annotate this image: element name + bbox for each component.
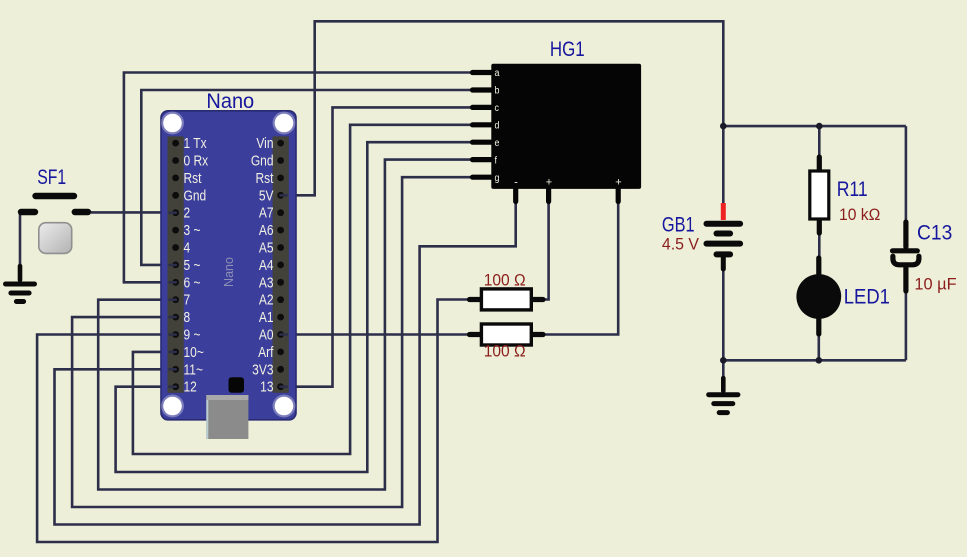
nano right pin dots: [277, 140, 284, 390]
svg-text:-: -: [514, 177, 518, 189]
svg-text:13: 13: [260, 378, 273, 395]
junction node battery top: [720, 123, 727, 130]
wire R11 to LED1: [818, 232, 821, 258]
resistor R3 100ohm bottom: [470, 324, 544, 345]
svg-text:4: 4: [184, 239, 191, 256]
wire HG1 e to nano pin12: [116, 142, 478, 472]
svg-text:c: c: [495, 102, 500, 114]
battery negative stub: [721, 256, 726, 269]
svg-text:A6: A6: [259, 222, 274, 239]
wire battery top segment: [722, 126, 725, 204]
capacitor C13: [893, 222, 919, 291]
svg-text:SF1: SF1: [37, 166, 66, 190]
svg-text:R11: R11: [837, 178, 868, 202]
HG1 left pin stubs: [473, 73, 494, 178]
svg-text:b: b: [495, 85, 500, 97]
HG1 polarity marks: [514, 177, 622, 189]
svg-text:5V: 5V: [259, 187, 274, 204]
svg-text:100 Ω: 100 Ω: [484, 342, 526, 361]
svg-text:0 Rx: 0 Rx: [184, 152, 209, 169]
junction node battery bottom: [720, 357, 727, 364]
svg-text:Gnd: Gnd: [251, 152, 274, 169]
LED LED1: [796, 258, 841, 334]
svg-text:a: a: [495, 68, 500, 80]
svg-text:+: +: [546, 177, 552, 189]
svg-text:Rst: Rst: [184, 170, 202, 187]
svg-text:8: 8: [184, 309, 191, 326]
nano USB connector: [206, 395, 248, 439]
wire HG1 f to nano pin7: [98, 160, 478, 490]
HG1 pin letters: [495, 68, 500, 185]
HG1 bottom pin stubs: [516, 187, 619, 202]
svg-text:A7: A7: [259, 204, 274, 221]
wire HG1 plus1 to resistor R2 right: [543, 200, 549, 300]
wire SF1 left terminal to ground: [19, 212, 22, 267]
wire C13 bottom drop: [905, 290, 908, 360]
svg-text:d: d: [495, 120, 500, 132]
svg-text:10 kΩ: 10 kΩ: [839, 206, 880, 225]
svg-text:100 Ω: 100 Ω: [484, 271, 526, 290]
wire power rail top: [723, 125, 906, 128]
wire HG1 b to nano pin5: [141, 90, 478, 265]
svg-text:+: +: [615, 177, 621, 189]
svg-text:2: 2: [184, 204, 191, 221]
svg-text:A3: A3: [259, 274, 274, 291]
display HG1: [491, 64, 641, 189]
svg-text:Gnd: Gnd: [184, 187, 207, 204]
nano left pin labels: [184, 135, 209, 395]
svg-text:4.5 V: 4.5 V: [662, 235, 699, 254]
wire HG1 c to nano pin13: [290, 107, 478, 386]
nano ICSP block: [229, 377, 245, 393]
wire HG1 g to nano pin8: [72, 177, 478, 507]
battery GB1: [707, 203, 741, 269]
nano connected pin wire ends: [170, 195, 287, 386]
svg-text:10~: 10~: [184, 344, 204, 361]
Arduino Nano board U1: [161, 111, 296, 420]
svg-text:1 Tx: 1 Tx: [184, 135, 207, 152]
svg-text:f: f: [495, 155, 498, 167]
svg-text:Vin: Vin: [256, 135, 273, 152]
svg-text:Nano: Nano: [222, 257, 236, 287]
switch right terminal: [75, 209, 88, 215]
svg-text:Arf: Arf: [258, 344, 274, 361]
svg-text:6 ~: 6 ~: [184, 274, 201, 291]
svg-text:HG1: HG1: [550, 38, 585, 62]
ground below SF1: [6, 266, 35, 302]
svg-text:9 ~: 9 ~: [184, 326, 201, 343]
battery plate long 1: [707, 221, 741, 227]
wire ground stub below battery: [722, 360, 725, 379]
switch SF1: [21, 196, 88, 253]
wire HG1 a to nano pin6: [124, 73, 478, 283]
wire R11 top drop: [818, 126, 821, 160]
svg-text:A1: A1: [259, 309, 274, 326]
svg-text:g: g: [495, 172, 500, 184]
wire SF1 to nano pin2: [91, 211, 176, 214]
nano right pin labels: [251, 135, 274, 395]
svg-text:5 ~: 5 ~: [184, 257, 201, 274]
svg-text:11~: 11~: [184, 361, 204, 378]
svg-text:Rst: Rst: [255, 170, 273, 187]
switch left terminal: [21, 209, 35, 215]
battery positive red lead: [721, 203, 726, 220]
switch button: [39, 223, 72, 254]
resistor R2 100ohm top: [470, 289, 544, 310]
wire battery bottom to ground junction: [722, 269, 725, 360]
svg-text:A4: A4: [259, 257, 274, 274]
wire HG1 d to nano pin10: [133, 125, 478, 454]
svg-text:LED1: LED1: [844, 285, 890, 309]
wire HG1 minus to nano pin11: [55, 200, 516, 525]
wire resistor R2 left to nano pin9: [37, 300, 470, 543]
wire HG1 plus2 to resistor R3 right: [543, 200, 619, 335]
svg-text:3 ~: 3 ~: [184, 222, 201, 239]
junction node R11 top: [816, 123, 823, 130]
svg-text:e: e: [495, 137, 500, 149]
svg-text:Nano: Nano: [206, 90, 254, 114]
battery plate short 2: [717, 251, 731, 257]
svg-text:7: 7: [184, 291, 191, 308]
battery plate long 2: [707, 241, 741, 247]
battery plate short 1: [717, 231, 731, 237]
svg-text:A5: A5: [259, 239, 274, 256]
svg-text:A0: A0: [259, 326, 274, 343]
wire bottom rail: [723, 359, 906, 362]
switch bar: [36, 193, 75, 199]
junction node LED bottom: [816, 357, 823, 364]
wire 5V to top rail to battery top: [290, 21, 723, 195]
svg-text:GB1: GB1: [662, 213, 695, 237]
wire resistor R3 left to nano A0: [290, 333, 470, 336]
wire LED1 to bottom rail: [817, 333, 820, 360]
svg-text:10 µF: 10 µF: [914, 275, 956, 294]
svg-text:A2: A2: [259, 291, 274, 308]
svg-text:3V3: 3V3: [252, 361, 273, 378]
wire C13 top drop: [905, 126, 908, 224]
svg-text:C13: C13: [917, 221, 952, 245]
svg-text:12: 12: [184, 378, 197, 395]
ground below battery: [709, 378, 738, 413]
nano left pin dots: [172, 140, 179, 390]
resistor R11: [810, 157, 829, 233]
